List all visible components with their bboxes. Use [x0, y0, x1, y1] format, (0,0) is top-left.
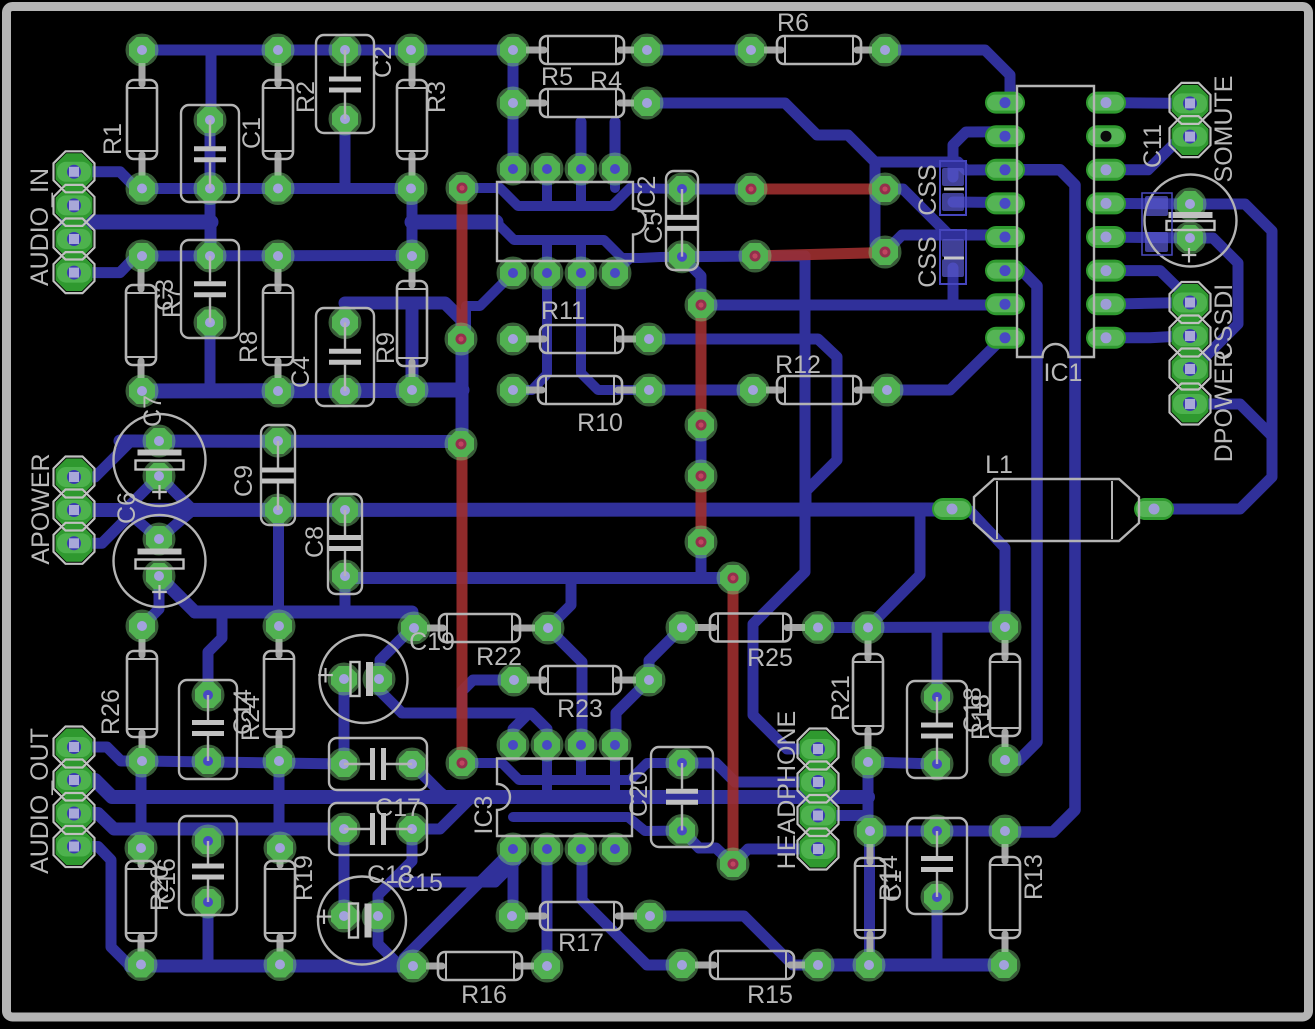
svg-text:R23: R23: [557, 695, 603, 723]
svg-text:R22: R22: [476, 643, 522, 671]
svg-text:C5: C5: [640, 212, 668, 244]
svg-text:APOWER: APOWER: [27, 453, 55, 564]
svg-text:R10: R10: [577, 409, 623, 437]
svg-text:R16: R16: [461, 981, 507, 1009]
svg-text:C1: C1: [879, 870, 907, 902]
svg-text:C11: C11: [1139, 124, 1167, 168]
svg-text:R26: R26: [97, 689, 125, 735]
svg-text:IC3: IC3: [470, 796, 498, 835]
svg-text:+: +: [315, 901, 333, 934]
svg-text:R17: R17: [558, 929, 604, 957]
svg-text:R15: R15: [747, 981, 793, 1009]
svg-text:CSS: CSS: [914, 164, 942, 215]
svg-text:R20: R20: [146, 865, 174, 911]
svg-text:R24: R24: [237, 695, 265, 741]
svg-text:AUDIO_OUT: AUDIO_OUT: [26, 728, 54, 874]
svg-text:R2: R2: [292, 81, 320, 113]
svg-text:R25: R25: [747, 644, 793, 672]
svg-text:R3: R3: [423, 81, 451, 113]
svg-text:C4: C4: [287, 356, 315, 388]
svg-text:L1: L1: [985, 451, 1013, 479]
svg-text:CSS: CSS: [914, 236, 942, 287]
svg-text:+: +: [151, 576, 169, 609]
svg-text:C7: C7: [139, 395, 167, 427]
svg-text:R6: R6: [777, 9, 809, 37]
svg-text:R8: R8: [235, 331, 263, 363]
svg-text:IC2: IC2: [633, 176, 661, 215]
svg-text:+: +: [317, 659, 335, 692]
svg-text:SOMUTE: SOMUTE: [1210, 76, 1238, 183]
svg-text:+: +: [1180, 239, 1198, 272]
svg-text:R12: R12: [775, 351, 821, 379]
svg-text:R13: R13: [1020, 854, 1048, 900]
svg-text:C8: C8: [301, 526, 329, 558]
svg-text:R9: R9: [372, 332, 400, 364]
svg-text:DPOWER: DPOWER: [1210, 350, 1238, 463]
svg-text:+: +: [151, 476, 169, 509]
svg-text:R5: R5: [541, 63, 573, 91]
svg-text:IC1: IC1: [1044, 359, 1083, 387]
svg-text:C2: C2: [369, 46, 397, 78]
svg-text:C15: C15: [397, 869, 443, 897]
svg-text:C20: C20: [625, 771, 653, 817]
svg-text:R21: R21: [827, 675, 855, 721]
svg-text:R1: R1: [99, 123, 127, 155]
svg-text:C19: C19: [409, 628, 455, 656]
svg-text:R4: R4: [590, 67, 622, 95]
svg-text:C1: C1: [238, 117, 266, 149]
svg-text:R19: R19: [290, 855, 318, 901]
svg-text:C17: C17: [375, 794, 421, 822]
svg-text:R7: R7: [158, 286, 186, 318]
svg-text:HEADPHONE: HEADPHONE: [773, 711, 801, 869]
svg-text:AUDIO_IN: AUDIO_IN: [26, 168, 54, 286]
svg-text:R18: R18: [967, 694, 995, 740]
svg-text:R11: R11: [541, 297, 585, 325]
svg-text:C6: C6: [113, 492, 141, 524]
svg-text:C9: C9: [230, 465, 258, 497]
svg-text:CSSDI: CSSDI: [1210, 284, 1238, 360]
